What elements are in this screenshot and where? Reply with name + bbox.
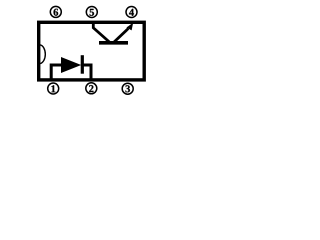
- pin 6 label: [50, 6, 61, 17]
- pin 5 label: [86, 7, 97, 18]
- phototransistor Q1 emitter lead (pin 4): [113, 29, 129, 44]
- pin 3 label: [122, 83, 133, 94]
- phototransistor Q1 emitter arrow: [126, 23, 133, 31]
- package outline box: [39, 22, 145, 80]
- LED D1 cathode wire (pin 2 lead): [83, 65, 91, 81]
- pin 2 label: [86, 83, 97, 94]
- LED D1 cathode bar: [81, 55, 84, 73]
- LED D1 triangle: [61, 57, 81, 73]
- phototransistor Q1 collector lead (pin 5): [93, 23, 110, 44]
- notch (pin-1 end indicator): [40, 45, 45, 64]
- pin 4 label: [126, 7, 137, 18]
- pin 1 label: [48, 83, 59, 94]
- phototransistor Q1 base bar: [99, 41, 128, 45]
- LED D1 anode wire (pin 1 lead): [51, 65, 61, 81]
